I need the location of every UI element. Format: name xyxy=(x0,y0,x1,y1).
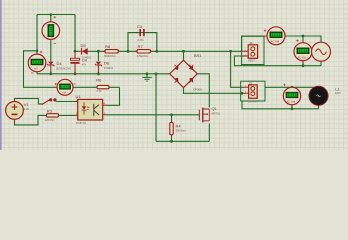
svg-text:R4: R4 xyxy=(176,123,182,128)
svg-text:R6: R6 xyxy=(96,78,102,83)
wire output top rail xyxy=(265,86,319,88)
wire lamp bottom stub xyxy=(318,105,320,108)
svg-text:33KOhm: 33KOhm xyxy=(176,129,186,133)
node R4 bottom junction xyxy=(170,140,173,143)
wire top-rail corner down to node A xyxy=(74,15,76,52)
wire main lower rail xyxy=(37,73,170,75)
meter M5 (AC voltmeter) xyxy=(294,39,312,63)
wire upper chain y51 xyxy=(75,50,242,52)
node meter1 rail tee xyxy=(50,13,53,16)
svg-text:D6: D6 xyxy=(104,61,110,66)
svg-text:U1: U1 xyxy=(76,94,82,99)
svg-text:L1: L1 xyxy=(335,86,340,91)
svg-text:PC817O: PC817O xyxy=(76,121,86,125)
diode D4 (zener, vertical) xyxy=(48,61,72,71)
svg-text:Q1: Q1 xyxy=(212,106,218,111)
wire bridge bottom to J2 pin2 xyxy=(184,88,243,94)
window left border xyxy=(0,0,2,150)
resistor R7 xyxy=(135,44,153,58)
resistor R3 xyxy=(45,108,59,122)
wire AC voltmeter top stub xyxy=(302,36,304,43)
svg-text:C3: C3 xyxy=(137,24,143,29)
svg-text:R7: R7 xyxy=(138,44,144,49)
wire switch to U1 pin1 xyxy=(56,101,75,103)
diode D5 (horizontal, pointing left) xyxy=(80,43,91,60)
svg-text:INPUT: INPUT xyxy=(248,59,256,62)
svg-text:0.47u: 0.47u xyxy=(137,38,144,42)
node B junction D6 top xyxy=(97,50,100,53)
wire D4 bottom to rail xyxy=(50,65,52,71)
wire left loop to bottom meter row xyxy=(24,51,58,88)
optocoupler U1 (PC817) xyxy=(75,94,106,125)
node R4 top junction xyxy=(170,113,173,116)
meter M1 (DC ammeter, vertical display) xyxy=(42,16,60,44)
svg-text:mV: mV xyxy=(34,66,38,70)
wire D6 vertical top xyxy=(97,51,99,61)
node AC voltmeter bottom junction xyxy=(302,64,305,67)
wire ammeter to source top xyxy=(285,36,321,42)
node AC voltmeter top junction xyxy=(302,35,305,38)
svg-text:D5: D5 xyxy=(81,43,87,48)
svg-text:V1: V1 xyxy=(24,102,30,107)
wire J1 ammeter link xyxy=(242,36,267,51)
transistor Q1 (MOSFET IRF720) xyxy=(199,106,220,122)
svg-text:mA: mA xyxy=(62,90,66,94)
node output meter top junction xyxy=(291,86,294,89)
svg-text:BZV55C3V6: BZV55C3V6 xyxy=(57,66,72,70)
wire Q1 source down xyxy=(208,124,210,142)
wire top rail xyxy=(37,14,75,16)
resistor R4 (vertical) xyxy=(170,122,186,134)
svg-text:560kOhm: 560kOhm xyxy=(104,54,115,58)
wire AC voltmeter bottom stub xyxy=(302,61,304,66)
AC source xyxy=(312,42,331,61)
node J2 pin2 junction xyxy=(241,92,244,95)
node A junction xyxy=(74,50,77,53)
resistor R6 xyxy=(96,78,109,93)
node D6 rail junction xyxy=(97,72,100,75)
resistor R8 xyxy=(103,44,120,58)
node C3 left junction xyxy=(127,50,130,53)
svg-text:3.3V: 3.3V xyxy=(24,107,30,111)
svg-text:1N4001: 1N4001 xyxy=(104,66,114,70)
meter M2 (DC voltmeter) xyxy=(28,51,46,73)
wire left vertical from top rail to meter M2 xyxy=(36,15,38,55)
svg-text:1N4001: 1N4001 xyxy=(82,56,92,60)
node bridge top junction xyxy=(182,50,185,53)
meter M4 (AC ammeter) xyxy=(263,27,286,45)
svg-text:47u: 47u xyxy=(82,63,87,67)
wire y51 rail down to J2 pin1 xyxy=(231,51,242,87)
svg-text:AC AM: AC AM xyxy=(271,39,279,43)
wire meter2 bottom stub xyxy=(36,72,38,74)
wire bridge right to drain vertical xyxy=(197,74,209,108)
switch SW xyxy=(42,98,57,104)
wire J1 pin2 to AC bottom xyxy=(234,56,321,66)
svg-text:J1: J1 xyxy=(249,41,253,45)
wire meter1 stub down xyxy=(50,15,52,23)
svg-text:OUTPUT: OUTPUT xyxy=(248,100,258,103)
wire U1 pin4 to R6 xyxy=(107,87,120,105)
wire D6 vertical bottom xyxy=(97,65,99,73)
node J2 feed junction on y51 rail xyxy=(229,50,232,53)
wire lamp top stub xyxy=(318,86,320,87)
wire source bottom stub xyxy=(320,61,322,65)
battery V1 xyxy=(6,100,30,123)
wire R3 to U1 pin2 xyxy=(59,114,76,116)
meter M3 (DC ammeter in bottom row) xyxy=(55,79,76,95)
wire bottom rail xyxy=(156,140,209,142)
wire gate from U1 pin3 xyxy=(107,114,200,116)
svg-text:AC Volt: AC Volt xyxy=(297,55,306,59)
bridge rectifier BR1 xyxy=(170,54,203,91)
capacitor C3 xyxy=(128,24,157,42)
wire output meter bottom stub xyxy=(291,105,293,109)
svg-text:470kOhm: 470kOhm xyxy=(137,54,148,58)
svg-text:AC Volt: AC Volt xyxy=(286,99,295,103)
svg-text:IRF720: IRF720 xyxy=(212,111,221,115)
svg-text:220Ohm: 220Ohm xyxy=(45,118,55,122)
node output meter bottom junction xyxy=(291,107,294,110)
svg-text:2.7k: 2.7k xyxy=(97,89,103,93)
node C3 right junction xyxy=(155,50,158,53)
node ground rail junction xyxy=(146,72,149,75)
diode D6 (vertical) xyxy=(95,61,113,70)
svg-text:220V: 220V xyxy=(335,91,341,95)
wire ground drop x156 xyxy=(155,74,157,142)
wire R4 leads xyxy=(171,115,173,142)
wire V1 bottom to R3 xyxy=(15,115,47,125)
connector J2 (OUTPUT) xyxy=(241,81,265,103)
wire V1 top xyxy=(15,98,42,104)
meter M6 (output AC voltmeter) xyxy=(283,84,300,105)
lamp L1 xyxy=(309,86,341,105)
node x156 rail junction xyxy=(155,72,158,75)
wire meter1 bottom to D4 xyxy=(50,39,52,60)
capacitor C4 (electrolytic) xyxy=(70,51,87,74)
svg-text:R3: R3 xyxy=(47,108,53,113)
ground symbol xyxy=(142,74,152,81)
wire meter3 right to R6 xyxy=(73,86,120,88)
wire bridge top stub xyxy=(183,51,185,60)
node C4 rail junction xyxy=(74,72,77,75)
wire output bottom rail xyxy=(242,101,319,109)
wire C3 loop xyxy=(128,33,157,52)
svg-text:BR1: BR1 xyxy=(194,54,201,58)
connector J1 (INPUT) xyxy=(242,36,264,64)
svg-text:R8: R8 xyxy=(105,44,111,49)
svg-text:J2: J2 xyxy=(249,81,253,85)
svg-text:DF005: DF005 xyxy=(193,88,202,92)
node D4 rail junction xyxy=(49,72,52,75)
svg-text:D4: D4 xyxy=(57,61,63,66)
node meter2 top tee xyxy=(36,50,39,53)
